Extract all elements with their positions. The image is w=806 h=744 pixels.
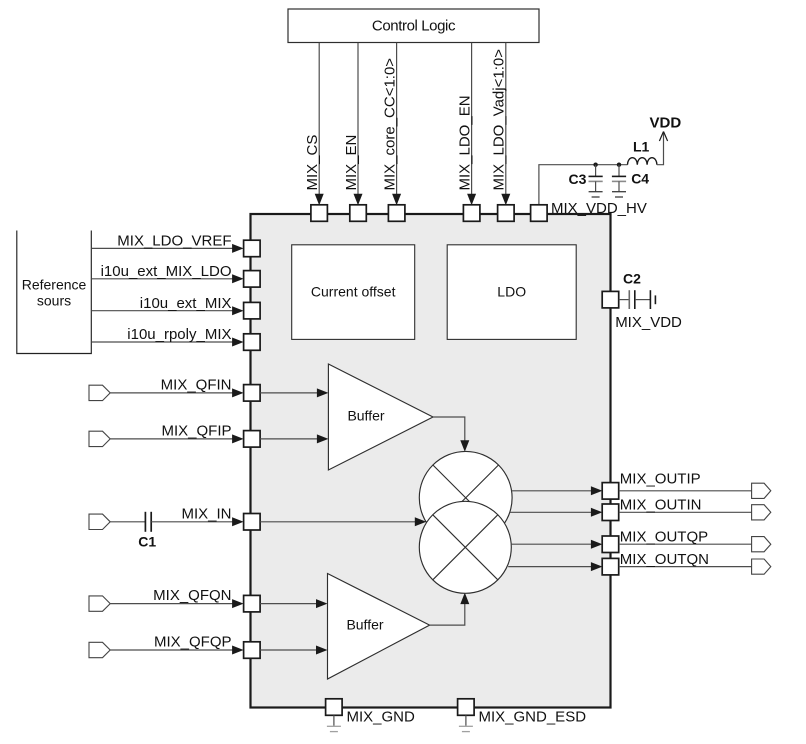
output port MIX_OUTQP [752,537,771,552]
junction node C4 [617,163,621,167]
capacitor C4 [618,165,620,177]
wire buffer U2 to mixer [430,603,465,625]
wire MIX_CS [318,43,320,194]
wire MIX_QFIN to buffer [260,392,318,394]
wire MIX_GND ground stub [333,715,335,726]
wire MIX_IN [151,521,233,523]
svg-text:LDO: LDO [497,284,526,300]
inductor L1 [628,158,657,165]
svg-text:MIX_VDD_HV: MIX_VDD_HV [551,200,647,217]
svg-text:sours: sours [37,293,71,309]
capacitor C3 [595,165,597,177]
wire MIX_GND_ESD ground stub [465,715,467,726]
wire MIX_OUTQN [619,566,752,568]
wire MIX_VDD [619,299,629,301]
input port MIX_QFQP [89,642,110,657]
svg-text:Reference: Reference [22,277,87,293]
svg-text:Control Logic: Control Logic [372,18,456,35]
svg-text:Buffer: Buffer [347,408,384,424]
output port MIX_OUTIP [752,483,771,498]
svg-text:i10u_rpoly_MIX: i10u_rpoly_MIX [127,326,231,343]
wire MIX_LDO_EN [471,43,473,194]
input port MIX_QFIN [89,385,110,400]
wire buffer U1 to mixer [433,417,465,441]
wire MIX_OUTIN internal [510,511,592,513]
svg-text:MIX_CS: MIX_CS [304,135,321,191]
wire L1 to VDD [657,133,664,165]
ground MIX_GND [327,726,341,731]
pin MIX_core_CC<1:0> [388,205,405,222]
LDO block [447,245,576,340]
mixer M2 [419,501,511,593]
pin MIX_VDD_HV [531,205,548,222]
wire MIX_OUTQP [619,543,752,545]
wire MIX_OUTQN internal [508,566,592,568]
pin MIX_IN [244,514,261,531]
wire MIX_QFQN [110,603,233,605]
pin MIX_OUTIP [602,483,619,500]
svg-text:MIX_LDO_EN: MIX_LDO_EN [456,95,473,190]
pin MIX_CS [311,205,328,222]
svg-text:MIX_QFQN: MIX_QFQN [153,587,231,604]
svg-text:MIX_OUTQP: MIX_OUTQP [620,528,708,545]
svg-text:C2: C2 [623,271,641,287]
wire MIX_LDO_Vadj<1:0> [505,43,507,194]
svg-text:MIX_QFQP: MIX_QFQP [154,634,232,651]
wire MIX_OUTIP [619,490,752,492]
pin MIX_OUTQN [602,558,619,575]
VDD arrow [659,132,667,142]
wire MIX_OUTIP internal [512,490,593,492]
ground MIX_GND_ESD [459,726,473,731]
svg-text:MIX_QFIP: MIX_QFIP [161,422,231,439]
svg-text:i10u_ext_MIX: i10u_ext_MIX [140,295,232,312]
wire i10u_rpoly_MIX [91,341,233,343]
current offset block [292,245,415,340]
svg-text:Current offset: Current offset [311,284,396,300]
pin MIX_GND_ESD [458,699,475,716]
wire MIX_QFIP [110,438,233,440]
wire MIX_QFQP to buffer [260,649,317,651]
svg-text:i10u_ext_MIX_LDO: i10u_ext_MIX_LDO [101,263,232,280]
buffer U1 [328,364,433,470]
mixer core block [251,214,611,708]
wire MIX_VDD_HV to L1 node [539,165,628,205]
pin MIX_EN [350,205,367,222]
svg-text:L1: L1 [633,139,650,155]
pin i10u_ext_MIX_LDO [244,271,261,288]
svg-text:MIX_OUTIP: MIX_OUTIP [620,470,701,487]
svg-text:VDD: VDD [650,115,682,132]
svg-text:MIX_QFIN: MIX_QFIN [161,376,232,393]
wire MIX_IN to mixer [260,521,416,523]
svg-text:C1: C1 [138,534,156,550]
wire MIX_OUTQP internal [511,543,592,545]
wire MIX_OUTIN [619,511,752,513]
pin MIX_QFQP [244,642,261,659]
pin MIX_LDO_EN [463,205,480,222]
pin MIX_QFIN [244,385,261,402]
svg-text:MIX_OUTIN: MIX_OUTIN [620,496,702,513]
svg-text:MIX_core_CC<1:0>: MIX_core_CC<1:0> [381,58,398,191]
svg-text:MIX_OUTQN: MIX_OUTQN [620,551,709,568]
junction node C3 [593,163,597,167]
pin MIX_LDO_VREF [244,240,261,257]
pin MIX_GND [326,699,343,716]
wire MIX_EN [357,43,359,194]
svg-text:Buffer: Buffer [346,616,383,632]
reference source block [17,231,92,354]
wire MIX_QFIN [110,392,233,394]
svg-text:MIX_GND: MIX_GND [347,708,416,725]
svg-text:MIX_LDO_Vadj<1:0>: MIX_LDO_Vadj<1:0> [491,49,508,191]
pin i10u_rpoly_MIX [244,334,261,351]
pin MIX_LDO_Vadj<1:0> [498,205,514,222]
pin i10u_ext_MIX [244,302,261,319]
mixer M1 [419,451,512,544]
wire i10u_ext_MIX [91,310,233,312]
svg-text:MIX_VDD: MIX_VDD [615,314,682,331]
pin MIX_OUTQP [602,536,619,553]
capacitor C2 [628,290,630,309]
output port MIX_OUTQN [752,559,771,574]
wire MIX_QFQP [110,649,233,651]
wire MIX_QFIP to buffer [260,438,318,440]
output port MIX_OUTIN [752,505,771,520]
capacitor C1 [144,512,146,532]
pin MIX_OUTIN [602,504,619,521]
svg-text:MIX_LDO_VREF: MIX_LDO_VREF [117,233,231,250]
ground C4 [612,192,626,197]
svg-text:MIX_IN: MIX_IN [181,505,231,522]
buffer U2 [328,574,430,680]
wire i10u_ext_MIX_LDO [91,278,233,280]
svg-text:C3: C3 [569,171,587,187]
svg-text:MIX_EN: MIX_EN [343,135,360,191]
svg-text:MIX_GND_ESD: MIX_GND_ESD [479,708,587,725]
wire MIX_core_CC<1:0> [396,43,398,194]
wire MIX_LDO_VREF [91,247,233,249]
wire MIX_IN left [110,521,145,523]
pin MIX_QFQN [244,595,261,612]
ground C3 [589,192,603,197]
wire MIX_QFQN to buffer [260,603,317,605]
pin MIX_VDD [602,291,619,308]
control logic block [288,9,539,43]
pin MIX_QFIP [244,431,261,448]
input port MIX_QFQN [89,596,110,611]
input port MIX_IN [89,514,110,529]
input port MIX_QFIP [89,431,110,446]
svg-text:C4: C4 [631,171,649,187]
